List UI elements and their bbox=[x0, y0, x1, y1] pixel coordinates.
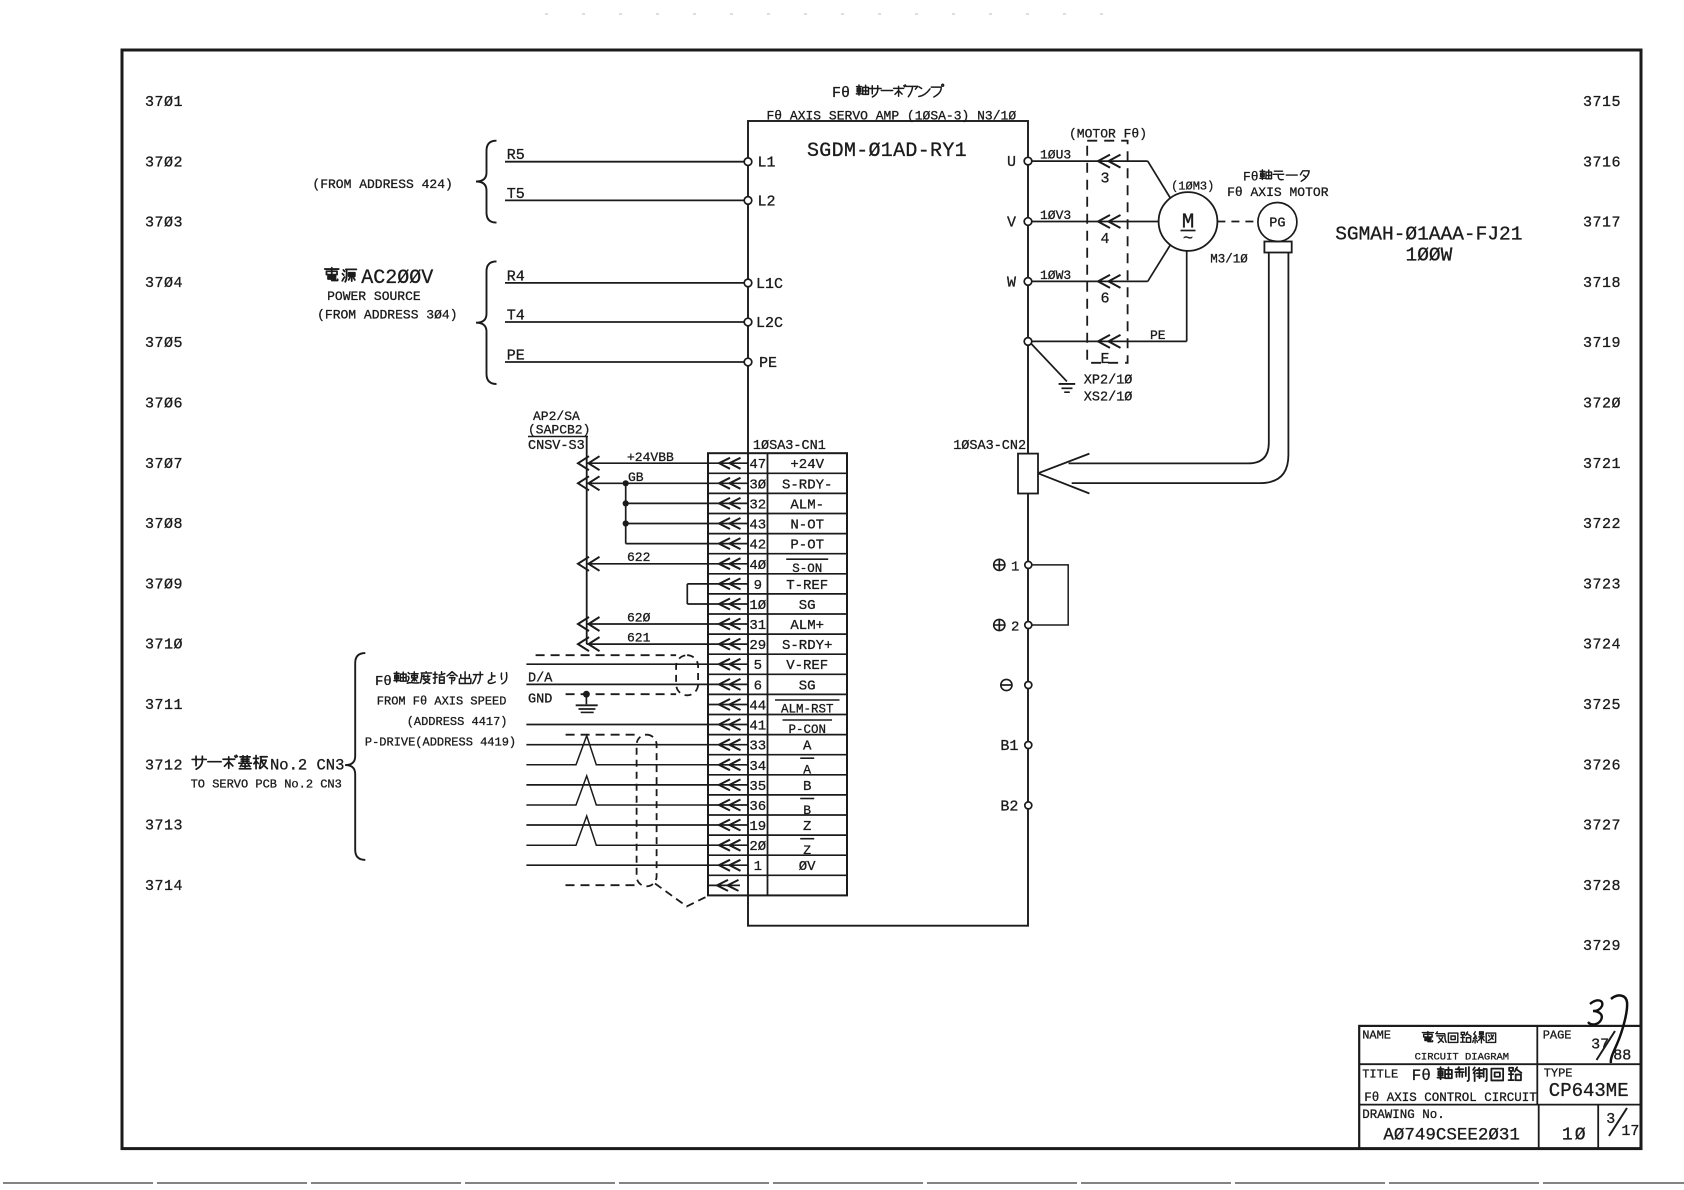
svg-text:GB: GB bbox=[628, 470, 644, 485]
svg-text:4Ø: 4Ø bbox=[749, 558, 766, 574]
svg-text:SG: SG bbox=[799, 598, 816, 614]
svg-text:S-RDY+: S-RDY+ bbox=[782, 638, 832, 654]
svg-text:1ØU3: 1ØU3 bbox=[1040, 148, 1071, 163]
svg-text:S-ON: S-ON bbox=[792, 562, 822, 576]
svg-text:A: A bbox=[803, 739, 812, 755]
svg-text:1ØV3: 1ØV3 bbox=[1040, 208, 1071, 223]
svg-text:GND: GND bbox=[528, 693, 552, 708]
svg-text:3727: 3727 bbox=[1583, 818, 1621, 835]
svg-text:CIRCUIT DIAGRAM: CIRCUIT DIAGRAM bbox=[1415, 1052, 1510, 1064]
svg-text:L1C: L1C bbox=[756, 276, 783, 293]
svg-text:NAME: NAME bbox=[1362, 1028, 1391, 1042]
svg-text:37Ø9: 37Ø9 bbox=[145, 576, 183, 593]
svg-text:3: 3 bbox=[1606, 1111, 1615, 1128]
svg-text:T5: T5 bbox=[507, 186, 525, 203]
svg-text:37Ø5: 37Ø5 bbox=[145, 335, 183, 352]
svg-text:PE: PE bbox=[759, 355, 777, 372]
svg-text:1ØSA3-CN1: 1ØSA3-CN1 bbox=[753, 439, 826, 454]
svg-text:Fθ AXIS MOTOR: Fθ AXIS MOTOR bbox=[1227, 185, 1329, 200]
svg-text:No.2 CN3: No.2 CN3 bbox=[270, 757, 344, 775]
svg-text:T-REF: T-REF bbox=[786, 578, 828, 594]
svg-text:Fθ AXIS CONTROL CIRCUIT: Fθ AXIS CONTROL CIRCUIT bbox=[1364, 1091, 1537, 1105]
svg-text:T4: T4 bbox=[507, 308, 525, 325]
svg-text:XS2/1Ø: XS2/1Ø bbox=[1084, 391, 1133, 406]
svg-text:37Ø1: 37Ø1 bbox=[145, 94, 183, 111]
svg-text:3: 3 bbox=[1100, 171, 1109, 188]
svg-text:3714: 3714 bbox=[145, 878, 183, 895]
svg-text:32: 32 bbox=[749, 497, 766, 513]
svg-text:AØ749CSEE2Ø31: AØ749CSEE2Ø31 bbox=[1383, 1125, 1520, 1145]
svg-text:PAGE: PAGE bbox=[1543, 1028, 1572, 1042]
svg-text:37Ø8: 37Ø8 bbox=[145, 516, 183, 533]
svg-text:SGMAH-Ø1AAA-FJ21: SGMAH-Ø1AAA-FJ21 bbox=[1335, 224, 1522, 246]
svg-text:62Ø: 62Ø bbox=[627, 611, 651, 626]
svg-text:Fθ: Fθ bbox=[1243, 169, 1259, 184]
svg-text:1ØØW: 1ØØW bbox=[1406, 245, 1453, 267]
svg-text:3721: 3721 bbox=[1583, 456, 1621, 473]
svg-text:17: 17 bbox=[1621, 1123, 1639, 1140]
svg-text:DRAWING No.: DRAWING No. bbox=[1362, 1108, 1445, 1122]
svg-text:+24V: +24V bbox=[790, 457, 824, 473]
svg-text:M3/1Ø: M3/1Ø bbox=[1210, 252, 1248, 266]
svg-text:CP643ME: CP643ME bbox=[1549, 1080, 1629, 1102]
svg-text:3719: 3719 bbox=[1583, 335, 1621, 352]
svg-text:37Ø3: 37Ø3 bbox=[145, 215, 183, 232]
svg-text:R5: R5 bbox=[507, 147, 525, 164]
svg-text:P-OT: P-OT bbox=[790, 538, 824, 554]
svg-text:1Ø: 1Ø bbox=[1562, 1125, 1588, 1145]
svg-text:31: 31 bbox=[749, 618, 766, 634]
svg-text:622: 622 bbox=[627, 550, 650, 565]
svg-text:9: 9 bbox=[754, 578, 762, 594]
svg-text:88: 88 bbox=[1613, 1048, 1631, 1065]
svg-text:33: 33 bbox=[749, 739, 766, 755]
svg-text:L2C: L2C bbox=[756, 315, 783, 332]
svg-text:P-CON: P-CON bbox=[788, 723, 826, 737]
svg-text:1Ø: 1Ø bbox=[749, 598, 766, 614]
svg-text:PG: PG bbox=[1269, 217, 1285, 232]
svg-text:2: 2 bbox=[1011, 620, 1019, 636]
svg-text:3713: 3713 bbox=[145, 818, 183, 835]
svg-text:3716: 3716 bbox=[1583, 154, 1621, 171]
svg-text:3724: 3724 bbox=[1583, 637, 1621, 654]
svg-text:Fθ: Fθ bbox=[375, 674, 392, 690]
svg-text:(1ØM3): (1ØM3) bbox=[1171, 180, 1214, 194]
svg-text:ALM-RST: ALM-RST bbox=[781, 703, 834, 717]
svg-text:34: 34 bbox=[749, 759, 766, 775]
svg-text:6: 6 bbox=[1100, 291, 1109, 308]
svg-text:(SAPCB2): (SAPCB2) bbox=[528, 423, 590, 438]
svg-text:(ADDRESS 4417): (ADDRESS 4417) bbox=[407, 715, 508, 729]
svg-text:B: B bbox=[803, 779, 811, 795]
svg-text:3717: 3717 bbox=[1583, 215, 1621, 232]
svg-text:Z: Z bbox=[803, 843, 811, 858]
svg-text:POWER SOURCE: POWER SOURCE bbox=[327, 289, 421, 304]
svg-text:+24VBB: +24VBB bbox=[627, 450, 674, 465]
svg-text:B1: B1 bbox=[1000, 738, 1018, 755]
svg-text:37Ø6: 37Ø6 bbox=[145, 396, 183, 413]
svg-text:3718: 3718 bbox=[1583, 275, 1621, 292]
svg-text:621: 621 bbox=[627, 631, 651, 646]
svg-text:19: 19 bbox=[749, 819, 766, 835]
svg-text:3722: 3722 bbox=[1583, 516, 1621, 533]
svg-text:3Ø: 3Ø bbox=[749, 477, 766, 493]
svg-text:1ØSA3-CN2: 1ØSA3-CN2 bbox=[953, 439, 1026, 454]
svg-text:4: 4 bbox=[1100, 231, 1109, 248]
svg-text:~: ~ bbox=[1183, 230, 1193, 249]
svg-text:L2: L2 bbox=[758, 193, 776, 210]
svg-text:ALM-: ALM- bbox=[790, 497, 824, 513]
svg-text:AC2ØØV: AC2ØØV bbox=[361, 267, 433, 290]
svg-text:P-DRIVE(ADDRESS 4419): P-DRIVE(ADDRESS 4419) bbox=[365, 736, 516, 750]
svg-text:6: 6 bbox=[754, 678, 762, 694]
svg-text:43: 43 bbox=[749, 518, 766, 534]
svg-text:41: 41 bbox=[749, 719, 766, 735]
svg-text:ALM+: ALM+ bbox=[790, 618, 824, 634]
svg-text:3711: 3711 bbox=[145, 697, 183, 714]
svg-text:B: B bbox=[803, 803, 811, 818]
svg-text:3725: 3725 bbox=[1583, 697, 1621, 714]
svg-text:(MOTOR Fθ): (MOTOR Fθ) bbox=[1069, 126, 1147, 141]
svg-text:3723: 3723 bbox=[1583, 576, 1621, 593]
svg-text:3728: 3728 bbox=[1583, 878, 1621, 895]
svg-text:(FROM ADDRESS 3Ø4): (FROM ADDRESS 3Ø4) bbox=[317, 308, 457, 323]
svg-text:V-REF: V-REF bbox=[786, 658, 828, 674]
svg-text:37Ø2: 37Ø2 bbox=[145, 154, 183, 171]
svg-text:42: 42 bbox=[749, 538, 766, 554]
svg-text:1: 1 bbox=[754, 859, 762, 875]
svg-text:E: E bbox=[1100, 351, 1109, 368]
svg-text:SG: SG bbox=[799, 678, 816, 694]
svg-text:2Ø: 2Ø bbox=[749, 839, 766, 855]
svg-text:S-RDY-: S-RDY- bbox=[782, 477, 832, 493]
svg-text:35: 35 bbox=[749, 779, 766, 795]
svg-text:PE: PE bbox=[507, 348, 525, 365]
svg-text:CNSV-S3: CNSV-S3 bbox=[528, 439, 585, 454]
svg-text:TO SERVO PCB No.2 CN3: TO SERVO PCB No.2 CN3 bbox=[191, 778, 342, 792]
svg-text:3729: 3729 bbox=[1583, 938, 1621, 955]
svg-text:47: 47 bbox=[749, 457, 766, 473]
svg-text:A: A bbox=[803, 763, 811, 778]
svg-text:U: U bbox=[1007, 154, 1016, 171]
svg-text:371Ø: 371Ø bbox=[145, 637, 183, 654]
svg-text:37Ø7: 37Ø7 bbox=[145, 456, 183, 473]
svg-text:V: V bbox=[1007, 215, 1016, 232]
svg-text:D/A: D/A bbox=[528, 672, 553, 687]
svg-text:37Ø4: 37Ø4 bbox=[145, 275, 183, 292]
svg-text:W: W bbox=[1007, 274, 1016, 291]
svg-text:372Ø: 372Ø bbox=[1583, 396, 1621, 413]
svg-text:36: 36 bbox=[749, 799, 766, 815]
svg-text:Fθ: Fθ bbox=[1412, 1067, 1431, 1085]
svg-text:B2: B2 bbox=[1000, 799, 1018, 816]
svg-text:FROM Fθ AXIS SPEED: FROM Fθ AXIS SPEED bbox=[377, 695, 507, 709]
svg-text:ØV: ØV bbox=[799, 859, 816, 875]
svg-text:TITLE: TITLE bbox=[1362, 1068, 1398, 1082]
svg-text:Z: Z bbox=[803, 819, 811, 835]
svg-text:29: 29 bbox=[749, 638, 766, 654]
svg-text:5: 5 bbox=[754, 658, 762, 674]
svg-text:SGDM-Ø1AD-RY1: SGDM-Ø1AD-RY1 bbox=[807, 140, 967, 163]
svg-text:L1: L1 bbox=[758, 155, 776, 172]
svg-text:PE: PE bbox=[1150, 328, 1166, 343]
svg-text:TYPE: TYPE bbox=[1544, 1067, 1573, 1081]
svg-text:Fθ: Fθ bbox=[832, 85, 850, 102]
svg-text:N-OT: N-OT bbox=[790, 518, 824, 534]
svg-text:44: 44 bbox=[749, 699, 766, 715]
svg-text:R4: R4 bbox=[507, 268, 525, 285]
svg-text:3712: 3712 bbox=[145, 757, 183, 774]
svg-text:XP2/1Ø: XP2/1Ø bbox=[1084, 374, 1133, 389]
svg-text:1ØW3: 1ØW3 bbox=[1040, 268, 1071, 283]
svg-text:3726: 3726 bbox=[1583, 757, 1621, 774]
svg-text:(FROM ADDRESS 424): (FROM ADDRESS 424) bbox=[312, 177, 452, 192]
svg-text:1: 1 bbox=[1011, 559, 1019, 575]
svg-text:3715: 3715 bbox=[1583, 94, 1621, 111]
